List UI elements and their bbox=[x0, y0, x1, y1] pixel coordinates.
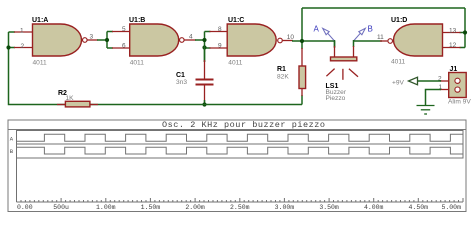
svg-text:Piezzo: Piezzo bbox=[326, 95, 346, 102]
graph title separator bbox=[8, 129, 466, 131]
resistor R1 body bbox=[299, 66, 306, 89]
pin stub U1:B pin4 output bbox=[184, 39, 196, 41]
wire: U1:A input vertical with bottom rail start bbox=[9, 32, 66, 105]
svg-text:3.00m: 3.00m bbox=[275, 204, 295, 211]
NAND gate U1:A body bbox=[33, 24, 82, 56]
trace row A box bbox=[17, 131, 464, 145]
svg-text:4.50m: 4.50m bbox=[409, 204, 429, 211]
wire: J1 pin1 to ground bbox=[426, 90, 442, 106]
junction: U1:A pin2 tie bbox=[6, 45, 10, 49]
svg-text:10: 10 bbox=[287, 34, 295, 41]
capacitor C1 plates bbox=[196, 80, 214, 85]
pin stub J1 pin2 bbox=[440, 80, 449, 82]
buzzer LS1 bar bbox=[331, 57, 357, 61]
svg-text:5: 5 bbox=[122, 26, 126, 33]
pin stub U1:C pin10 output bbox=[283, 40, 293, 42]
axis ticks bbox=[17, 198, 464, 202]
svg-text:+9V: +9V bbox=[392, 80, 405, 87]
wire: +9V to J1 pin2 bbox=[417, 80, 441, 82]
NAND gate U1:D body (mirrored) bbox=[394, 24, 443, 56]
svg-text:12: 12 bbox=[449, 42, 457, 49]
svg-text:Osc. 2 KHz pour buzzer piezzo: Osc. 2 KHz pour buzzer piezzo bbox=[162, 120, 325, 130]
junction: node 10 bbox=[300, 39, 304, 43]
svg-text:4011: 4011 bbox=[391, 59, 406, 66]
svg-text:500u: 500u bbox=[53, 204, 69, 211]
wire: node3 to U1:B inputs bbox=[97, 32, 113, 49]
NAND gate U1:C body bbox=[227, 24, 276, 56]
svg-text:U1:C: U1:C bbox=[228, 17, 244, 24]
pin stub U1:A pin1 bbox=[14, 31, 33, 33]
junction: C1 bottom on rail bbox=[202, 102, 206, 106]
junction: node 4 bbox=[202, 38, 206, 42]
pin stub U1:D pin12 bbox=[443, 47, 461, 49]
svg-text:1: 1 bbox=[20, 28, 24, 35]
svg-text:2: 2 bbox=[21, 43, 25, 50]
x axis line bbox=[17, 201, 464, 203]
svg-text:82K: 82K bbox=[277, 74, 289, 81]
pin stub U1:A pin3 output bbox=[87, 39, 98, 41]
svg-text:4: 4 bbox=[189, 34, 193, 41]
graph outer frame bbox=[8, 120, 466, 212]
NAND gate U1:D bubble bbox=[388, 39, 393, 44]
capacitor C1 leads bbox=[204, 46, 206, 105]
NAND gate U1:A bubble bbox=[83, 38, 88, 43]
trace row B box bbox=[17, 144, 464, 158]
svg-text:Alim 9V: Alim 9V bbox=[448, 98, 471, 105]
svg-text:U1:A: U1:A bbox=[32, 17, 48, 24]
svg-text:4011: 4011 bbox=[130, 60, 145, 67]
svg-text:5.00m: 5.00m bbox=[441, 204, 461, 211]
junction: U1:D pin13 bbox=[463, 30, 467, 34]
ground symbol bbox=[417, 106, 435, 115]
svg-text:6: 6 bbox=[122, 43, 126, 50]
svg-text:J1: J1 bbox=[450, 66, 458, 73]
NAND gate U1:B bubble bbox=[180, 38, 185, 43]
waveform B bbox=[17, 147, 464, 154]
svg-text:11: 11 bbox=[377, 34, 384, 41]
pin stub U1:B pin5 bbox=[112, 31, 130, 33]
buzzer LS1 sound lines bbox=[326, 69, 358, 80]
svg-text:4011: 4011 bbox=[228, 60, 243, 67]
svg-text:1.50m: 1.50m bbox=[141, 204, 161, 211]
svg-text:4.00m: 4.00m bbox=[364, 204, 384, 211]
svg-text:0.00: 0.00 bbox=[17, 204, 33, 211]
pin stub U1:D pin11 output bbox=[380, 40, 387, 42]
svg-text:2.00m: 2.00m bbox=[185, 204, 205, 211]
svg-text:1.00m: 1.00m bbox=[96, 204, 116, 211]
svg-text:8: 8 bbox=[218, 26, 222, 33]
svg-text:3.50m: 3.50m bbox=[319, 204, 339, 211]
svg-text:U1:B: U1:B bbox=[129, 17, 145, 24]
axis labels bbox=[17, 204, 461, 211]
probe B arrow bbox=[354, 28, 366, 41]
svg-text:4011: 4011 bbox=[33, 60, 48, 67]
waveform A bbox=[17, 134, 464, 141]
svg-text:2.50m: 2.50m bbox=[230, 204, 250, 211]
resistor R2 leads bbox=[57, 104, 98, 106]
probe A arrow bbox=[323, 28, 335, 41]
pin stub U1:D pin13 bbox=[443, 32, 461, 34]
svg-text:B: B bbox=[368, 25, 373, 34]
resistor R2 body bbox=[65, 101, 90, 107]
svg-text:C1: C1 bbox=[176, 72, 185, 79]
pin stub U1:C pin8 bbox=[210, 31, 228, 33]
svg-text:13: 13 bbox=[449, 28, 457, 35]
pin stub U1:B pin6 bbox=[112, 47, 130, 49]
wire: U1:D output to buzzer bbox=[354, 40, 383, 42]
resistor R1 leads bbox=[301, 48, 303, 96]
svg-text:3: 3 bbox=[90, 34, 94, 41]
svg-text:A: A bbox=[314, 25, 320, 34]
wire: bottom rail mid (R2 right to R1 corner) bbox=[90, 95, 302, 105]
svg-text:U1:D: U1:D bbox=[391, 17, 407, 24]
junction: node 3 bbox=[105, 38, 109, 42]
pin stub U1:C pin9 bbox=[210, 47, 228, 49]
power terminal +9V arrow bbox=[409, 77, 418, 85]
connector J1 box bbox=[449, 73, 467, 98]
y axis line bbox=[16, 131, 18, 203]
svg-text:R1: R1 bbox=[277, 66, 286, 73]
NAND gate U1:B body bbox=[130, 24, 179, 56]
svg-text:1K: 1K bbox=[66, 95, 75, 102]
connector J1 pin circles bbox=[455, 78, 460, 92]
pin stub J1 pin1 bbox=[440, 89, 449, 91]
wire: node10 net bbox=[292, 8, 465, 49]
wire: node4 to U1:C inputs and C1 bbox=[195, 32, 211, 63]
buzzer LS1 pins bbox=[335, 40, 354, 57]
svg-text:9: 9 bbox=[218, 43, 222, 50]
NAND gate U1:C bubble bbox=[278, 38, 283, 43]
pin stub U1:A pin2 bbox=[14, 47, 33, 49]
junction: U1:C pin9 tie bbox=[202, 45, 206, 49]
svg-text:3n3: 3n3 bbox=[176, 79, 187, 86]
